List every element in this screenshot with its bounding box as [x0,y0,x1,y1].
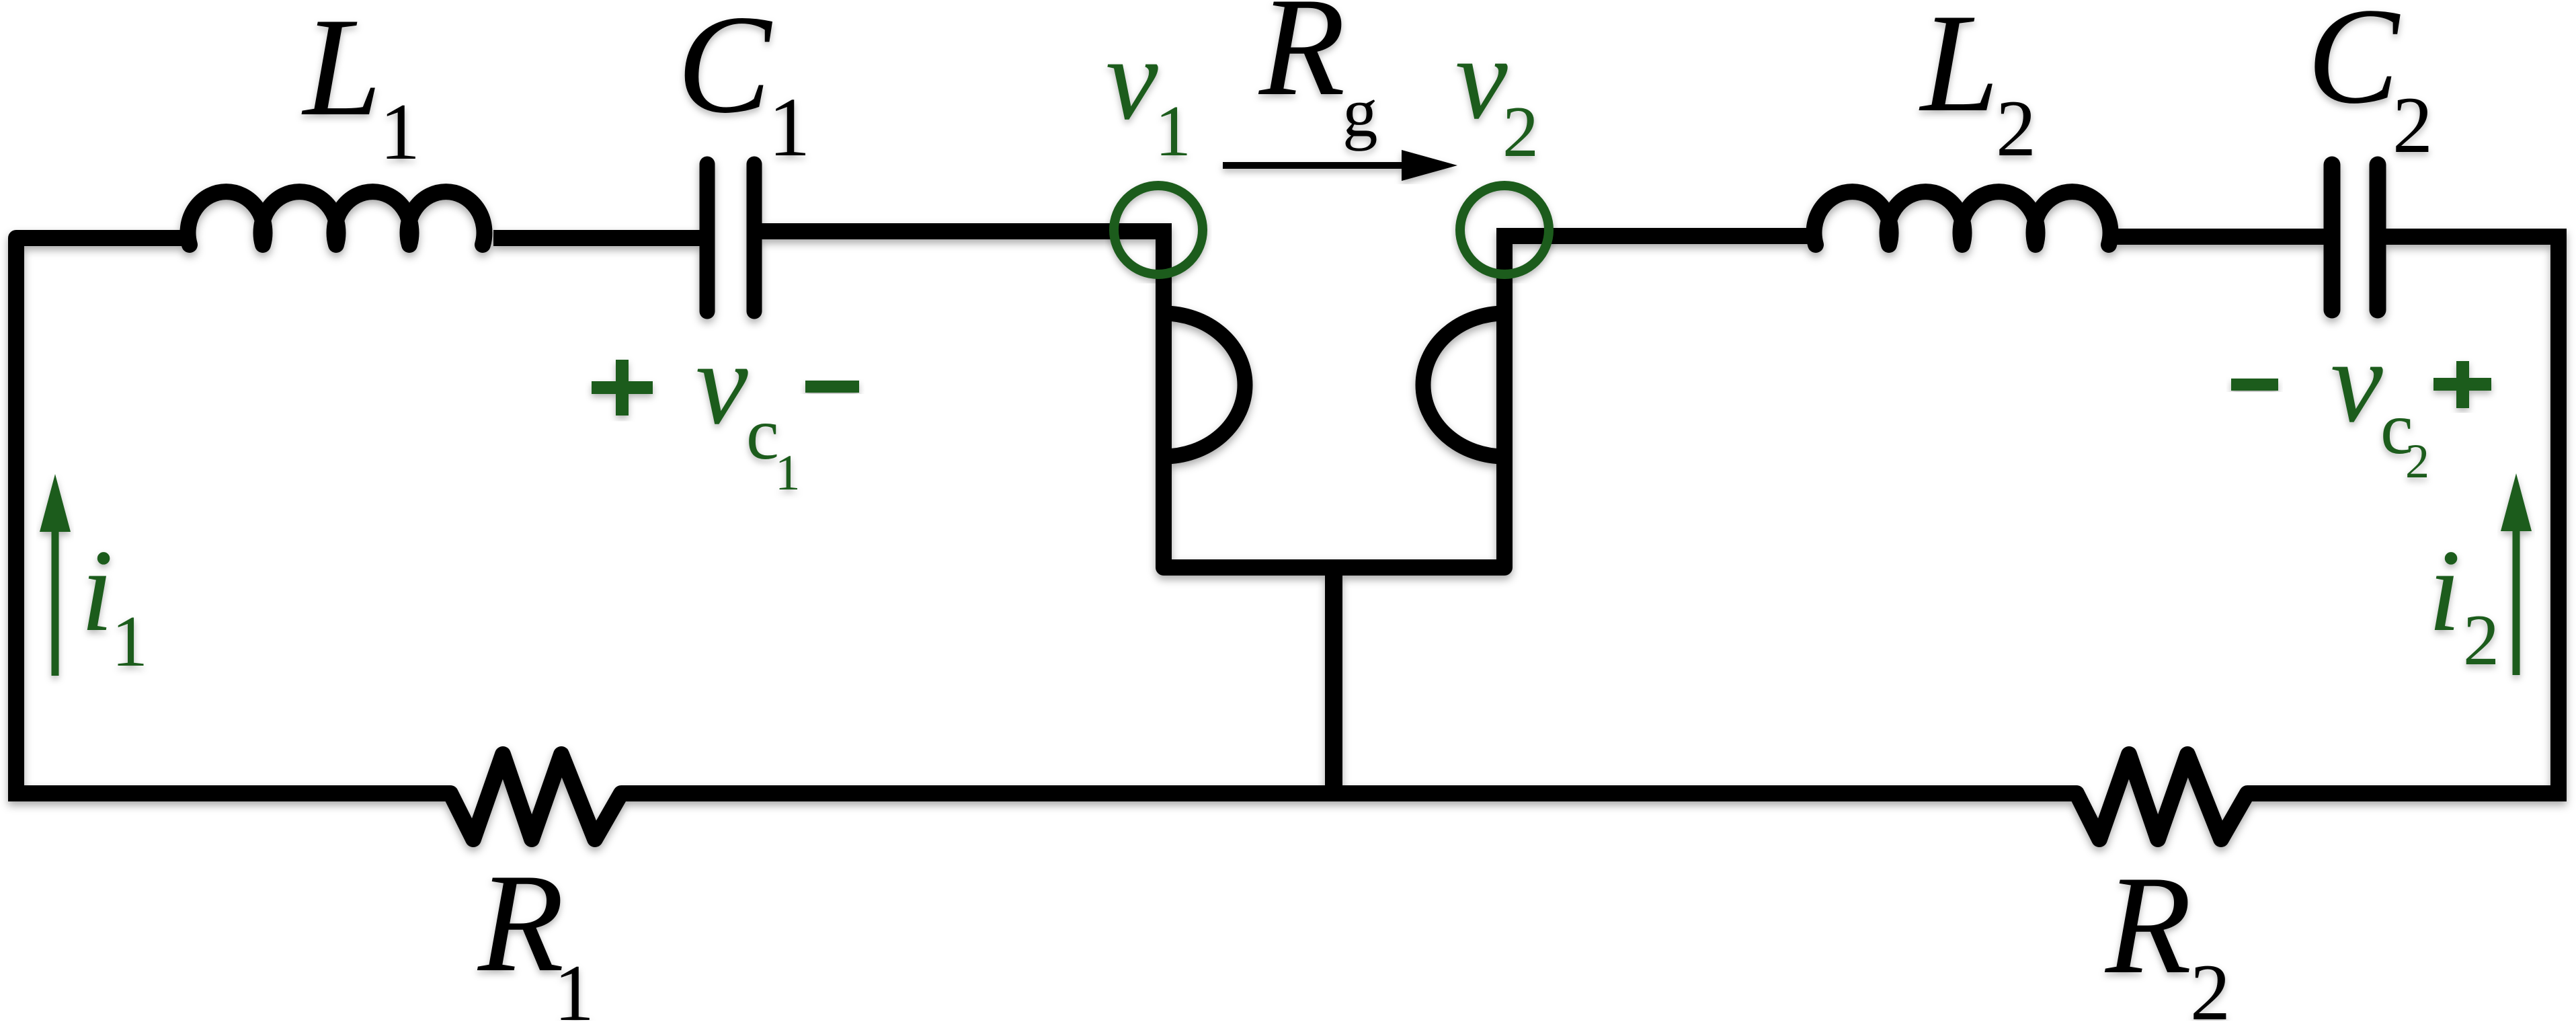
capacitor C2 left plate [2324,165,2341,310]
inductor L1 [188,192,485,245]
inductor L2 [1814,192,2111,245]
label R1 [477,845,594,1024]
transducer U1 left diaphragm arc [1164,313,1245,457]
label node voltage v1 [1106,13,1191,171]
wire from node v2 to L2 [1504,228,1809,244]
svg-text:v: v [1106,13,1158,144]
svg-text:2: 2 [2463,600,2499,680]
capacitor C1 right plate [747,164,762,311]
label node voltage v2 [1455,13,1539,172]
label L2 [1919,0,2036,173]
transducer U1 body (left leg, bottom bar, right leg) [1164,223,1504,567]
wire bottom rail middle segment [621,785,2077,801]
wire from L1 to C1 [493,230,707,246]
svg-text:1: 1 [1155,91,1191,171]
minus sign of vc1 [805,381,859,393]
svg-text:R: R [477,845,564,1001]
current arrow i1 [40,474,71,676]
current arrow i2 [2501,473,2532,675]
minus sign of vc2 [2231,379,2278,391]
svg-text:2: 2 [1502,92,1539,172]
label Rg (gyration resistance) [1258,0,1378,151]
svg-text:v: v [1455,13,1508,143]
svg-text:i: i [2428,525,2461,656]
svg-text:1: 1 [380,87,420,176]
transducer U1 right diaphragm arc [1423,313,1504,457]
svg-text:2: 2 [2392,80,2433,169]
svg-text:1: 1 [775,445,801,501]
plus sign of vc2 [2433,361,2491,408]
svg-text:v: v [2331,316,2383,446]
svg-text:1: 1 [112,602,148,682]
capacitor C1 left plate [700,164,715,311]
svg-text:C: C [677,0,773,143]
svg-text:2: 2 [2190,947,2230,1021]
wire bottom rail right segment [2247,785,2567,801]
svg-text:2: 2 [2405,434,2429,488]
plus sign of vc1 [592,360,653,416]
label loop current i2 [2428,525,2499,680]
wire center stem from transducer to bottom rail [1325,567,1342,793]
label C1 [677,0,811,174]
wire right vertical of loop 2 [2550,237,2567,801]
svg-text:C: C [2307,0,2401,132]
label R2 [2104,847,2230,1024]
capacitor C2 right plate [2370,165,2386,310]
wire top-right lead from C2 to right corner [2378,229,2567,245]
svg-text:i: i [81,525,114,656]
node v1 terminal circle [1114,186,1203,274]
label C2 [2307,0,2433,169]
arrow Rg from node v1 to node v2 [1223,150,1457,181]
node v2 terminal circle [1460,186,1549,274]
svg-text:c: c [746,393,779,475]
svg-text:1: 1 [554,948,594,1021]
wire from L2 to C2 [2106,229,2332,245]
svg-text:L: L [1919,0,1999,141]
svg-text:v: v [696,318,748,448]
resistor R2 zigzag [2067,754,2257,839]
label L1 [301,0,420,176]
svg-text:R: R [2104,847,2191,1003]
label loop current i1 [81,525,148,682]
svg-text:1: 1 [768,81,811,174]
svg-text:2: 2 [1996,83,2036,173]
svg-text:R: R [1258,0,1345,125]
wire left side (top-left lead and left vertical of loop 1) [16,238,190,793]
label capacitor voltage vc1 [696,318,801,501]
svg-text:g: g [1342,73,1378,151]
label capacitor voltage vc2 [2331,316,2429,488]
resistor R1 zigzag [441,754,631,839]
wire from C1 to node v1 [754,223,1164,239]
wire bottom rail left segment [8,785,450,801]
svg-text:L: L [301,0,382,145]
